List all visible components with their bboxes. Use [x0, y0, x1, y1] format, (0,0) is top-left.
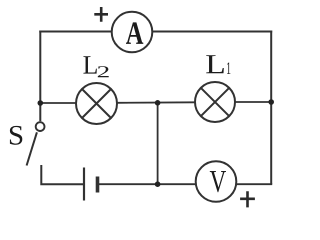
polarity plus near voltmeter: [240, 191, 255, 207]
label L2 subscript: [98, 66, 109, 77]
node junction dot left: [38, 100, 44, 106]
wire left vertical: [39, 31, 41, 122]
node junction dot right: [268, 99, 274, 105]
wire right vertical: [270, 31, 272, 185]
label L2: [83, 56, 96, 73]
lamp L2 cross: [82, 89, 111, 118]
wire top from left corner to ammeter: [39, 31, 112, 33]
battery short plate: [96, 177, 100, 193]
ammeter A1 letter: [126, 22, 143, 43]
label L1: [206, 55, 224, 73]
label L1 subscript: [227, 62, 230, 74]
node junction dot middle top: [155, 100, 161, 106]
lamp L2 circle: [76, 83, 117, 124]
node junction dot middle bottom: [155, 181, 161, 187]
switch S lever: [27, 132, 37, 165]
battery long plate: [83, 168, 85, 201]
voltmeter V1 circle: [196, 161, 237, 202]
wire bottom left segment: [41, 165, 83, 184]
label S: [10, 126, 22, 145]
wire top from ammeter to right corner: [153, 31, 273, 33]
wire middle row right: [235, 101, 272, 103]
wire middle row left: [39, 102, 76, 104]
ammeter A1 circle: [112, 12, 153, 53]
wire bottom from battery to voltmeter: [99, 183, 196, 185]
wire bottom from voltmeter to right corner: [237, 183, 273, 185]
wire middle row between lamps: [117, 101, 195, 104]
polarity plus near ammeter: [94, 7, 108, 22]
lamp L1 cross: [201, 88, 229, 116]
voltmeter V1 letter: [210, 171, 226, 192]
lamp L1 circle: [195, 82, 235, 122]
wire middle vertical: [157, 103, 159, 184]
switch S pivot circle: [36, 122, 45, 131]
